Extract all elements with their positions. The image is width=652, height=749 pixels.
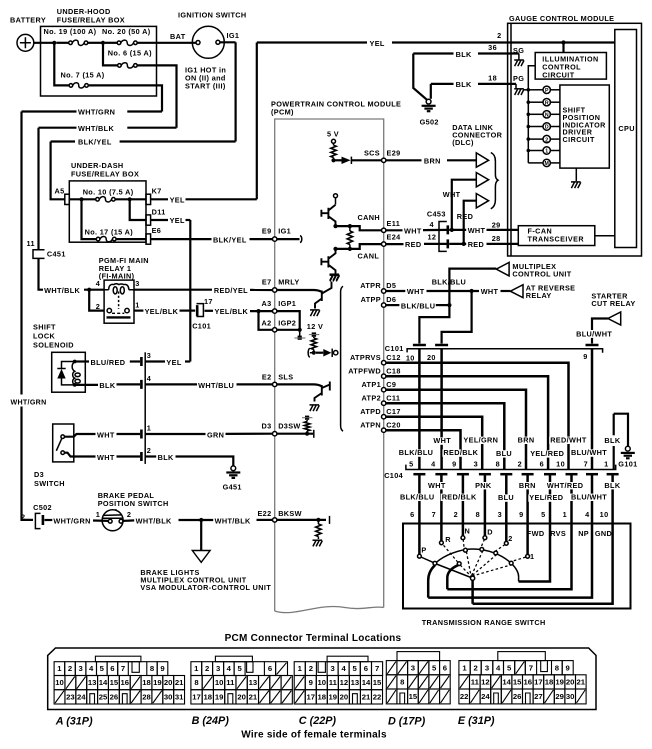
- node BLK/BLU junction: [447, 303, 451, 307]
- svg-text:SG: SG: [513, 46, 524, 55]
- battery B1: [17, 34, 34, 51]
- DLC bracket: [491, 153, 498, 209]
- node solenoid bottom: [73, 383, 77, 387]
- svg-text:5: 5: [353, 664, 358, 673]
- svg-text:29: 29: [492, 220, 501, 229]
- wire WHT/GRN to brake switch: [45, 519, 53, 521]
- svg-text:3: 3: [135, 279, 139, 288]
- svg-text:5 V: 5 V: [327, 129, 339, 138]
- svg-text:17: 17: [307, 693, 316, 702]
- fuse No.6: [118, 64, 122, 68]
- TRS inner contact 1: [509, 561, 513, 565]
- ground hatch BKSW: [313, 540, 323, 546]
- svg-text:BLU: BLU: [496, 449, 512, 458]
- wire C104 lower R: [435, 473, 447, 476]
- svg-text:2: 2: [508, 534, 512, 543]
- D3SW supply tap: [305, 416, 309, 420]
- wire C104 lower 1: [522, 473, 534, 476]
- 12V branch tick: [308, 348, 314, 357]
- svg-text:9: 9: [583, 352, 587, 361]
- wire ignition IG1 out: [220, 41, 236, 43]
- svg-text:ATPP: ATPP: [361, 295, 381, 304]
- svg-text:3: 3: [485, 663, 489, 672]
- svg-text:BLK/BLU: BLK/BLU: [400, 492, 434, 501]
- wire WHT/BLU to E2: [145, 383, 197, 385]
- svg-text:12: 12: [481, 678, 490, 687]
- svg-text:YEL/GRN: YEL/GRN: [463, 435, 498, 444]
- TRS inner contact D: [480, 548, 484, 552]
- svg-text:4: 4: [227, 664, 232, 673]
- wire brake branch arrow: [200, 520, 202, 551]
- svg-text:5: 5: [409, 459, 413, 468]
- starter cut triangle: [608, 312, 621, 325]
- svg-text:1: 1: [57, 664, 62, 673]
- 12V output node: [334, 351, 338, 355]
- label WHT c104l: [427, 482, 447, 489]
- svg-text:17: 17: [204, 297, 213, 306]
- connector C502: [35, 513, 40, 528]
- wire C104 lower GND: [607, 473, 619, 476]
- svg-text:CANL: CANL: [358, 251, 380, 260]
- resistor D3SW pull-up: [306, 431, 308, 434]
- pin E2: [273, 382, 277, 386]
- relay RY1 box: [104, 280, 134, 323]
- fuse No.19: [56, 42, 68, 44]
- wire starter column: [591, 349, 594, 470]
- ground G451: [226, 466, 240, 478]
- svg-text:22: 22: [373, 693, 382, 702]
- svg-text:17: 17: [534, 678, 543, 687]
- TRS dashed D: [481, 539, 485, 548]
- svg-text:WHT/GRN: WHT/GRN: [11, 399, 47, 407]
- label WHT c104u: [432, 437, 452, 444]
- under-dash fuse/relay box: [69, 181, 146, 242]
- svg-text:8: 8: [496, 459, 500, 468]
- solenoid diode: [62, 362, 75, 385]
- svg-text:P: P: [421, 546, 426, 555]
- svg-text:WHT/BLK: WHT/BLK: [215, 516, 251, 525]
- wire C104 lower FWD: [544, 473, 556, 476]
- ground hatch PG: [514, 89, 524, 95]
- TRS inner contact N: [464, 548, 468, 552]
- svg-text:2: 2: [309, 664, 313, 673]
- svg-text:18: 18: [545, 678, 554, 687]
- node K7 junction: [128, 197, 132, 201]
- svg-text:BRN: BRN: [424, 156, 441, 165]
- label BLU c104u: [495, 450, 513, 457]
- svg-text:21: 21: [362, 693, 371, 702]
- svg-text:1: 1: [147, 423, 151, 432]
- svg-text:RED: RED: [457, 212, 473, 221]
- svg-text:18: 18: [318, 693, 327, 702]
- svg-text:ATP2: ATP2: [361, 394, 381, 403]
- svg-text:15: 15: [513, 678, 522, 687]
- svg-text:10: 10: [318, 678, 327, 687]
- svg-text:24: 24: [481, 692, 490, 701]
- svg-text:D (17P): D (17P): [388, 715, 426, 727]
- svg-text:G451: G451: [223, 482, 242, 491]
- svg-text:WHT: WHT: [481, 287, 499, 296]
- svg-text:4: 4: [431, 459, 436, 468]
- indicator lamp 2: [527, 137, 531, 141]
- TRS dashed N: [463, 539, 464, 549]
- svg-text:D6: D6: [386, 295, 396, 304]
- svg-text:11: 11: [329, 678, 338, 687]
- svg-text:19: 19: [215, 693, 224, 702]
- wire D3SW inside: [277, 433, 313, 435]
- ground hatch Q3 emitter: [310, 310, 320, 316]
- wire WHT/BLK to E22: [257, 519, 273, 521]
- node WHT junction: [450, 228, 454, 232]
- CPU box: [615, 30, 637, 248]
- connector C (22P): [294, 656, 382, 704]
- node CANH junction B: [348, 224, 352, 228]
- illumination control circuit box: [535, 53, 606, 80]
- svg-text:RED: RED: [405, 240, 421, 249]
- wire relay pin2 feed: [89, 290, 104, 311]
- svg-text:13: 13: [351, 678, 360, 687]
- TRS R-RVS link: [447, 565, 458, 589]
- svg-text:VSA MODULATOR-CONTROL UNIT: VSA MODULATOR-CONTROL UNIT: [140, 583, 271, 592]
- DLC buffer triangle 2: [476, 173, 488, 187]
- svg-text:18: 18: [488, 73, 497, 82]
- svg-text:No. 7 (15 A): No. 7 (15 A): [61, 71, 105, 80]
- svg-text:BLK: BLK: [158, 453, 174, 462]
- svg-text:25: 25: [99, 693, 108, 702]
- svg-text:FWD: FWD: [527, 529, 545, 538]
- svg-text:BATTERY: BATTERY: [10, 16, 46, 25]
- DLC buffer triangle 3: [476, 194, 488, 208]
- resistor CAN terminator: [349, 226, 351, 231]
- label YEL/RED c104l: [528, 494, 564, 501]
- wire GRN to D3: [145, 433, 205, 435]
- svg-text:RVS: RVS: [550, 529, 566, 538]
- wire IGP2 inside: [277, 329, 300, 331]
- svg-text:D3SW: D3SW: [278, 422, 300, 431]
- wire WHT D3 row1: [65, 434, 96, 437]
- pin A3: [273, 309, 277, 313]
- brake pedal position switch: [102, 509, 123, 531]
- svg-text:BLK: BLK: [604, 436, 620, 445]
- transistor Q1 CANH: [321, 205, 335, 226]
- svg-text:E24: E24: [387, 233, 402, 242]
- svg-text:WHT: WHT: [468, 226, 486, 235]
- ground G101: [621, 446, 635, 458]
- svg-text:(PCM): (PCM): [271, 107, 294, 116]
- wire K7 YEL: [151, 198, 168, 200]
- svg-text:BLK: BLK: [456, 80, 472, 89]
- wire D11 YEL: [151, 219, 168, 221]
- node IGP junction: [298, 328, 302, 332]
- label YEL/RED c104u: [529, 450, 565, 457]
- wire BLK/BLU D6 row: [386, 304, 399, 306]
- pin E7: [273, 288, 277, 292]
- svg-text:3: 3: [216, 664, 220, 673]
- node battery feed junction: [52, 41, 56, 45]
- wire WHT D5 row: [386, 290, 405, 292]
- node brake junction: [199, 518, 203, 522]
- label BRN c104u: [517, 437, 536, 444]
- svg-text:GAUGE CONTROL MODULE: GAUGE CONTROL MODULE: [509, 14, 614, 23]
- svg-text:10: 10: [556, 459, 565, 468]
- svg-text:BLU/WHT: BLU/WHT: [576, 330, 612, 339]
- wire fuse10 to fuse17: [82, 199, 97, 239]
- svg-text:ATPR: ATPR: [360, 281, 381, 290]
- svg-text:30: 30: [164, 693, 173, 702]
- pin bar row2: [140, 452, 143, 461]
- svg-text:CIRCUIT: CIRCUIT: [563, 135, 595, 144]
- label BLK c104l: [603, 482, 621, 489]
- transistor Q4 SLS: [315, 382, 330, 402]
- TRS contact D: [483, 536, 487, 540]
- svg-text:1: 1: [604, 459, 608, 468]
- wire BLK SG row: [413, 52, 453, 54]
- wire ATPRVS row: [386, 363, 569, 470]
- indicator lamp 1: [527, 149, 531, 153]
- svg-text:7: 7: [584, 459, 588, 468]
- wire C104 lower P: [413, 473, 425, 476]
- wire WHT/BLK to relay: [39, 258, 44, 289]
- transistor Q2 CANL: [321, 249, 335, 274]
- svg-text:21: 21: [249, 693, 258, 702]
- svg-text:C18: C18: [386, 367, 400, 376]
- svg-text:9: 9: [566, 663, 570, 672]
- pin D5: [382, 289, 386, 293]
- wire RED E24 row: [386, 243, 404, 245]
- svg-text:BLK/YEL: BLK/YEL: [78, 138, 112, 147]
- svg-text:8: 8: [194, 678, 199, 687]
- svg-text:7: 7: [529, 663, 533, 672]
- svg-text:15: 15: [110, 678, 119, 687]
- svg-text:BLK/BLU: BLK/BLU: [432, 277, 466, 286]
- svg-text:BLK/BLU: BLK/BLU: [399, 448, 433, 457]
- wire BKSW inside: [277, 519, 326, 521]
- pin C20: [382, 428, 386, 432]
- svg-text:20: 20: [340, 693, 349, 702]
- svg-text:7: 7: [121, 664, 125, 673]
- wire WHT to triangle 2: [452, 180, 477, 230]
- wire fuse20 to ignition BAT: [137, 42, 196, 44]
- relay coil: [104, 284, 134, 294]
- svg-text:26: 26: [110, 693, 119, 702]
- wire CANH row: [336, 226, 384, 230]
- pin E29: [382, 158, 386, 162]
- wire IGP2 feed: [259, 311, 273, 330]
- svg-text:PCM Connector Terminal Locatio: PCM Connector Terminal Locations: [225, 633, 402, 644]
- svg-text:5: 5: [100, 664, 105, 673]
- node fuse10 junction: [79, 197, 83, 201]
- svg-text:WHT: WHT: [443, 190, 461, 199]
- connector tab D11: [146, 215, 151, 225]
- svg-text:C9: C9: [386, 380, 396, 389]
- shift lock solenoid box: [52, 352, 86, 392]
- svg-text:8: 8: [150, 664, 155, 673]
- C101 pin20 bar: [435, 344, 448, 347]
- diode SCS: [334, 159, 342, 161]
- svg-text:RED/YEL: RED/YEL: [214, 286, 248, 295]
- svg-text:1: 1: [135, 300, 139, 309]
- svg-text:CPU: CPU: [618, 124, 634, 133]
- node CANL junction B: [348, 247, 352, 251]
- svg-text:20: 20: [164, 678, 173, 687]
- svg-text:C (22P): C (22P): [299, 715, 337, 727]
- C101 pin10 bar: [413, 344, 426, 347]
- svg-text:R: R: [445, 535, 451, 544]
- svg-text:12: 12: [340, 678, 349, 687]
- svg-text:5: 5: [541, 510, 545, 519]
- svg-text:WHT: WHT: [407, 287, 425, 296]
- fuse No.17: [96, 237, 100, 241]
- svg-text:ATP1: ATP1: [361, 380, 381, 389]
- node D3SW junction: [305, 432, 309, 436]
- svg-text:BLK/BLU: BLK/BLU: [401, 301, 435, 310]
- svg-text:9: 9: [452, 459, 456, 468]
- connector E (31P): [459, 652, 586, 704]
- resistor SCS pull-up: [333, 143, 335, 145]
- wire SCS to E29: [351, 159, 383, 161]
- powertrain control module box: [275, 119, 384, 611]
- svg-text:YEL: YEL: [170, 196, 185, 205]
- pin C11: [382, 401, 386, 405]
- svg-text:M: M: [545, 161, 549, 167]
- svg-text:3: 3: [498, 510, 502, 519]
- svg-text:16: 16: [524, 678, 533, 687]
- svg-text:5: 5: [432, 663, 437, 672]
- svg-text:ATPRVS: ATPRVS: [350, 353, 381, 362]
- wire MRLY inside PCM: [277, 290, 322, 292]
- svg-text:WHT/RED: WHT/RED: [547, 481, 584, 490]
- ground hatch Q3 top: [330, 275, 340, 281]
- svg-text:5: 5: [507, 663, 512, 672]
- wire C104 lower N: [457, 473, 469, 476]
- svg-text:BLU: BLU: [498, 493, 514, 502]
- 12V supply tap: [312, 332, 316, 336]
- svg-text:10: 10: [55, 678, 64, 687]
- svg-text:6: 6: [110, 664, 114, 673]
- wire bus to illumination box: [528, 66, 535, 90]
- wire A5 to fuse10: [69, 198, 95, 200]
- wire YEL drop to shift lock: [189, 220, 191, 362]
- svg-text:PG: PG: [513, 74, 524, 83]
- svg-text:YEL/RED: YEL/RED: [530, 449, 564, 458]
- svg-text:C101: C101: [385, 344, 404, 353]
- TRS contact P: [418, 554, 422, 558]
- svg-text:A (31P): A (31P): [55, 715, 93, 727]
- wire to illumination circuit: [562, 43, 564, 53]
- node relay feed junction: [87, 288, 91, 292]
- svg-text:No. 17 (15 A): No. 17 (15 A): [85, 228, 134, 237]
- svg-text:C502: C502: [33, 503, 52, 512]
- ground hatch SG: [514, 60, 524, 66]
- label RED/WHT c104u: [549, 437, 588, 444]
- wire F-CAN to CPU: [595, 235, 615, 237]
- wire BLU/RED: [75, 360, 89, 362]
- svg-text:C12: C12: [386, 353, 400, 362]
- wire BRN from E29: [386, 159, 422, 161]
- svg-text:11: 11: [226, 678, 235, 687]
- svg-text:20: 20: [566, 678, 575, 687]
- wire YEL shift lock: [145, 360, 165, 362]
- node solenoid top: [73, 360, 77, 364]
- connector A (31P): [54, 656, 184, 704]
- TRS contact N: [461, 536, 465, 540]
- resistor BKSW: [317, 520, 319, 524]
- svg-text:PNK: PNK: [475, 481, 492, 490]
- wire RED/YEL to E7: [134, 289, 212, 291]
- wire BLK/YEL drop to A5: [51, 142, 65, 200]
- svg-text:3: 3: [78, 664, 82, 673]
- wire C101 pin20 column: [440, 349, 443, 470]
- solenoid coil: [72, 362, 75, 385]
- wire BLU/WHT starter: [592, 319, 608, 331]
- svg-text:G502: G502: [420, 118, 439, 127]
- svg-text:P: P: [545, 88, 549, 94]
- svg-text:6: 6: [364, 664, 368, 673]
- fuse No.10: [96, 198, 100, 202]
- wire WHT/GRN row: [22, 110, 77, 112]
- wire WHT to C101 pin20: [442, 291, 472, 344]
- svg-text:SOLENOID: SOLENOID: [33, 341, 74, 350]
- connector tab A5: [65, 194, 70, 204]
- relay armature link: [118, 292, 120, 310]
- svg-text:No. 19 (100 A): No. 19 (100 A): [44, 27, 97, 36]
- pin E9: [273, 237, 277, 241]
- svg-text:7: 7: [375, 664, 379, 673]
- wire C104 lower NP: [586, 473, 598, 476]
- svg-text:14: 14: [502, 678, 511, 687]
- svg-text:1: 1: [530, 552, 534, 561]
- svg-text:POSITION SWITCH: POSITION SWITCH: [98, 499, 169, 508]
- svg-text:BLU/RED: BLU/RED: [91, 358, 126, 367]
- transistor Q3 MRLY: [315, 282, 332, 309]
- wire ATP1 row: [386, 390, 526, 470]
- svg-text:IGP1: IGP1: [278, 299, 296, 308]
- wire BLK PG drop: [430, 84, 432, 99]
- svg-text:ATPFWD: ATPFWD: [348, 367, 381, 376]
- indicator lamp M: [528, 162, 543, 164]
- node CANL junction A: [333, 247, 337, 251]
- svg-text:A3: A3: [261, 299, 271, 308]
- indicator lamp R: [527, 100, 531, 104]
- wire IG1 inside PCM: [277, 238, 300, 240]
- wire K7 to D11 jog: [130, 199, 146, 220]
- svg-text:WHT: WHT: [404, 226, 422, 235]
- svg-text:4: 4: [89, 664, 94, 673]
- wire ATPN row: [386, 430, 461, 469]
- 5V supply terminal: [332, 139, 336, 143]
- node YEL illumination junction: [561, 40, 565, 44]
- label BLK/BLU c104l: [399, 494, 436, 501]
- svg-text:BLU/WHT: BLU/WHT: [571, 492, 607, 501]
- node RED junction: [462, 242, 466, 246]
- svg-text:19: 19: [555, 678, 564, 687]
- svg-text:IG1: IG1: [278, 226, 291, 235]
- svg-text:11: 11: [471, 678, 480, 687]
- svg-text:YEL/BLK: YEL/BLK: [215, 307, 249, 316]
- svg-text:23: 23: [66, 693, 75, 702]
- connector tab K7: [146, 194, 151, 204]
- wire C101 pin10 column: [418, 349, 421, 470]
- svg-text:C104: C104: [384, 471, 403, 480]
- svg-text:2: 2: [454, 510, 458, 519]
- wire C104 lower D: [479, 473, 491, 476]
- wire CAN supply: [335, 198, 337, 205]
- svg-text:12: 12: [428, 233, 437, 242]
- svg-text:SWITCH: SWITCH: [34, 479, 65, 488]
- label BLU/WHT c104l: [570, 494, 608, 501]
- indicator lamp P: [527, 88, 531, 92]
- svg-text:2: 2: [68, 664, 72, 673]
